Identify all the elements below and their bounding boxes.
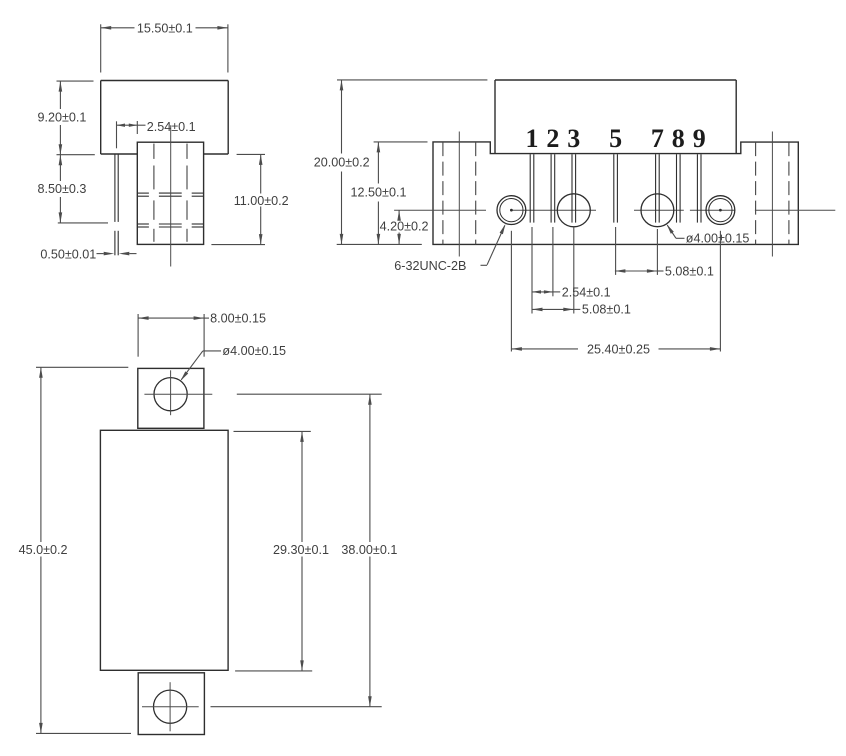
left view body outline: [101, 81, 229, 155]
plan view top hole crosshair: [144, 393, 212, 395]
extension line from pin 5: [615, 227, 617, 275]
svg-text:0.50±0.01: 0.50±0.01: [40, 247, 96, 261]
extension line from pin 1: [531, 227, 533, 314]
leader diameter 4.00 plan-view line and arrow: [203, 350, 221, 352]
plan view bottom hole crosshair: [142, 706, 199, 708]
svg-text:1: 1: [526, 124, 539, 153]
dim 15.50 extension lines: [100, 24, 102, 72]
left view block hidden line right: [186, 144, 188, 159]
dim 45.0 line and arrows: [40, 367, 42, 542]
plan view top mounting ear: [138, 368, 204, 428]
left view pin upper segment: [114, 154, 116, 222]
clearance hole circle around pin 3: [557, 194, 590, 227]
dim 29.30 extension lines: [234, 430, 311, 432]
extension line from left hole center: [510, 231, 512, 352]
svg-text:5: 5: [609, 124, 622, 153]
extension line from right hole center: [719, 231, 721, 352]
front view flange outline: [433, 142, 798, 245]
svg-text:15.50±0.1: 15.50±0.1: [137, 21, 193, 35]
extension line from pin 7 hole: [656, 229, 658, 275]
dim 9.20 line and arrows: [59, 81, 61, 109]
svg-text:ø4.00±0.15: ø4.00±0.15: [686, 232, 750, 246]
left view block horizontal double line lower: [137, 223, 149, 225]
svg-text:2.54±0.1: 2.54±0.1: [562, 285, 611, 299]
dim 20.00 top extension line: [337, 79, 487, 81]
svg-text:25.40±0.25: 25.40±0.25: [587, 342, 650, 356]
svg-text:3: 3: [567, 124, 580, 153]
pin 7: [655, 154, 657, 222]
pin 3: [571, 154, 573, 222]
dim 2.54 left-view line and arrows: [117, 124, 138, 126]
front view right screw-hole centerline: [771, 132, 773, 257]
svg-text:7: 7: [651, 124, 664, 153]
left view block hidden line left: [153, 144, 155, 159]
dim 2.54 left-view extension lines: [116, 121, 118, 148]
plan view bottom mounting ear: [138, 673, 204, 735]
left view hole centerline: [170, 125, 172, 266]
svg-text:20.00±0.2: 20.00±0.2: [314, 156, 370, 170]
dim 12.50 line and arrows: [377, 142, 379, 184]
svg-text:45.0±0.2: 45.0±0.2: [19, 543, 68, 557]
leader 6-32UNC-2B line and arrow: [481, 264, 488, 266]
svg-text:ø4.00±0.15: ø4.00±0.15: [222, 344, 286, 358]
dim 11.00 extension lines: [237, 153, 265, 155]
dim 29.30 line and arrows: [301, 431, 303, 542]
dim 8.00 line and arrows: [138, 317, 204, 319]
svg-text:8.50±0.3: 8.50±0.3: [38, 182, 87, 196]
left view block horizontal double line upper: [137, 192, 149, 194]
plan view bottom hole circle: [154, 690, 187, 723]
svg-text:9: 9: [693, 124, 706, 153]
svg-text:12.50±0.1: 12.50±0.1: [351, 186, 407, 200]
svg-text:38.00±0.1: 38.00±0.1: [341, 543, 397, 557]
dim 9.20 extension lines: [57, 80, 94, 82]
svg-text:9.20±0.1: 9.20±0.1: [38, 111, 87, 125]
dim 38.00 extension lines: [237, 393, 382, 395]
dim 8.50 line and arrows: [59, 155, 61, 181]
svg-text:11.00±0.2: 11.00±0.2: [234, 194, 289, 208]
front view body outline: [495, 80, 736, 154]
mounting hole right (threaded) outer+inner circles: [706, 196, 735, 225]
pin 5: [613, 154, 615, 222]
plan view top hole circle: [154, 378, 187, 411]
svg-text:8: 8: [672, 124, 685, 153]
extension line from pin 2: [552, 227, 554, 296]
svg-text:5.08±0.1: 5.08±0.1: [665, 264, 714, 278]
left view pin lower segment: [114, 231, 116, 256]
svg-text:2: 2: [546, 124, 559, 153]
dim 20.00 line and arrows: [341, 80, 343, 154]
pin 9: [696, 154, 698, 222]
clearance hole circle around pin 7: [641, 194, 674, 227]
pin 2: [550, 154, 552, 222]
left view terminal block outline: [137, 142, 203, 244]
svg-text:4.20±0.2: 4.20±0.2: [380, 220, 429, 234]
mounting hole left (threaded) outer+inner circles: [497, 196, 526, 225]
pin 8: [676, 154, 678, 222]
svg-text:2.54±0.1: 2.54±0.1: [147, 120, 196, 134]
front view right ear hidden lines: [755, 142, 757, 244]
svg-text:6-32UNC-2B: 6-32UNC-2B: [394, 259, 466, 273]
dim 12.50 top extension line: [374, 141, 428, 143]
dim 8.00 extension lines: [137, 314, 139, 357]
svg-text:5.08±0.1: 5.08±0.1: [582, 303, 631, 317]
leader diameter 4.00 front-view line and arrow: [676, 237, 685, 239]
dim 45.0 extension lines: [36, 366, 128, 368]
pin 1: [529, 154, 531, 222]
front view left ear hidden lines: [442, 142, 444, 244]
dim 2.54 front-view line and arrows: [532, 291, 553, 293]
dim 4.20 line and arrows: [398, 210, 400, 220]
dim 8.50 extension line: [58, 222, 108, 224]
front view horizontal centerline: [394, 209, 486, 211]
front view left screw-hole centerline: [458, 132, 460, 257]
dim 38.00 line and arrows: [369, 394, 371, 542]
dim 11.00 line and arrows: [260, 154, 262, 193]
dim 25.40 line and arrows: [511, 348, 578, 350]
dim 0.50 arrows: [97, 253, 104, 255]
dim 5.08 right line and arrows: [615, 270, 658, 272]
svg-text:29.30±0.1: 29.30±0.1: [273, 543, 329, 557]
plan view body outline: [100, 430, 228, 670]
extension line from pin 3: [573, 227, 575, 314]
dim 20.00 bottom extension line: [337, 243, 422, 245]
dim 15.50 line and arrows: [101, 27, 135, 29]
dim 5.08 left line and arrows: [532, 308, 574, 310]
svg-text:8.00±0.15: 8.00±0.15: [210, 311, 266, 325]
